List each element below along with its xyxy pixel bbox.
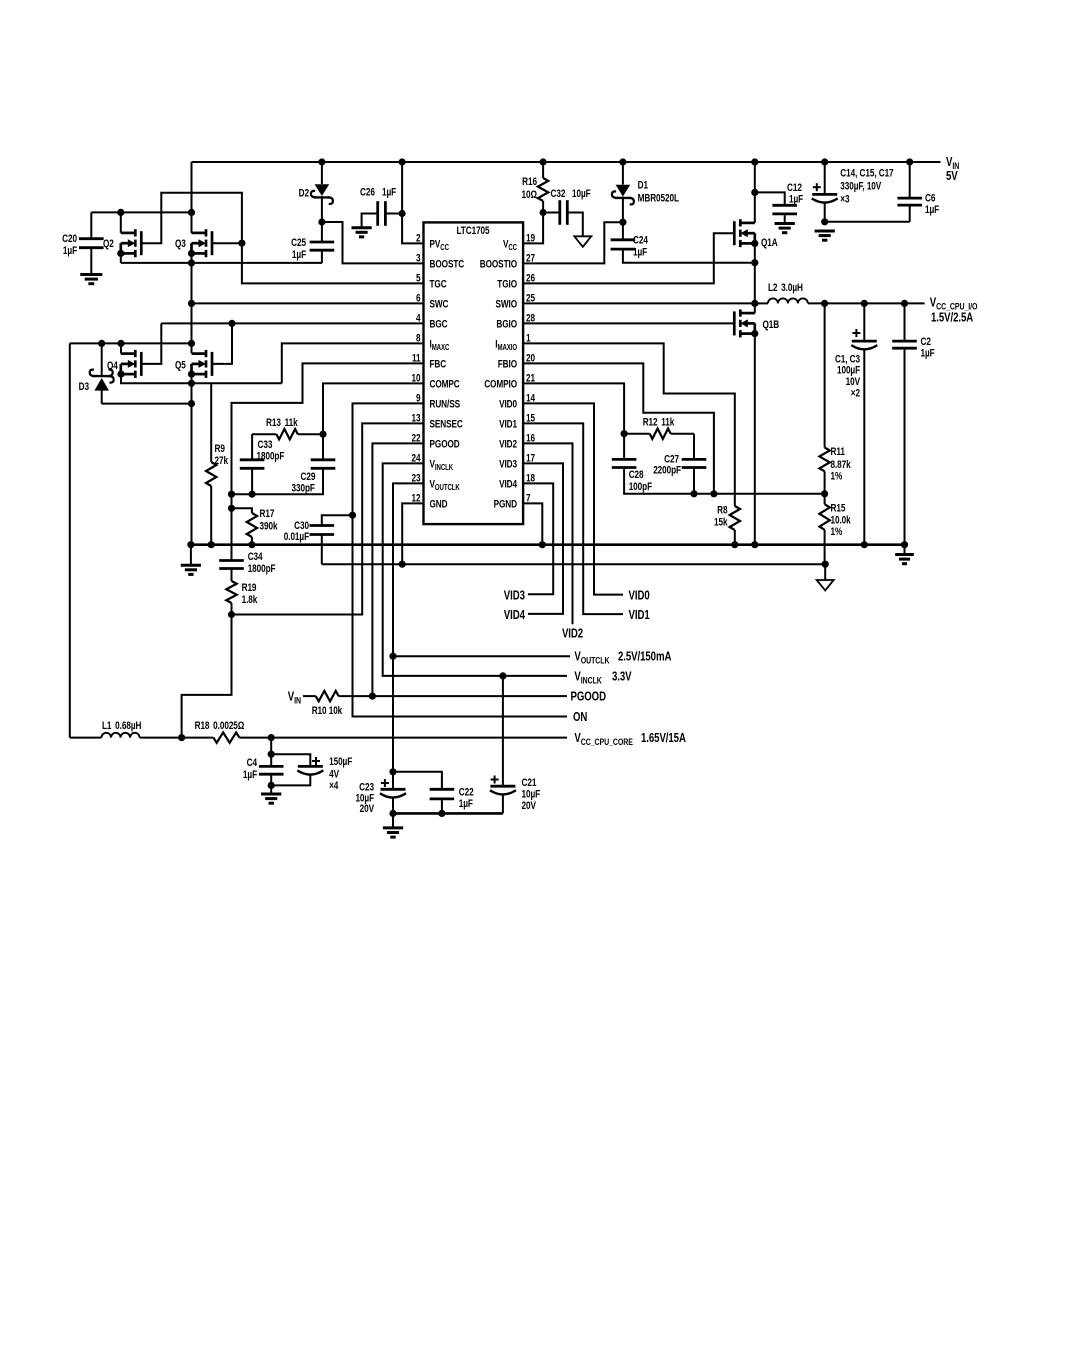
svg-text:C34: C34 bbox=[248, 551, 263, 563]
node C20/Q2 junction bbox=[117, 209, 124, 216]
resistor R8 15k bbox=[730, 506, 740, 530]
svg-text:×4: ×4 bbox=[329, 780, 339, 792]
wire Q3 gate lead bbox=[212, 242, 242, 244]
svg-text:150µF: 150µF bbox=[329, 756, 352, 768]
wire C4 drop bbox=[270, 738, 272, 767]
svg-text:C4: C4 bbox=[247, 757, 258, 769]
node Q1B rail bbox=[751, 541, 758, 548]
node sense tap bbox=[178, 734, 185, 741]
signal ground triangle under C32 bbox=[574, 236, 591, 247]
svg-text:1µF: 1µF bbox=[292, 249, 306, 261]
resistor R13 11k bbox=[252, 433, 276, 435]
wire VIN rail bbox=[192, 161, 941, 163]
svg-text:R10 10k: R10 10k bbox=[312, 705, 343, 717]
wire BGC gate net (Q4 riser) bbox=[141, 323, 161, 364]
node PGOOD junction bbox=[369, 693, 376, 700]
node boost C node bbox=[318, 218, 325, 225]
svg-text:0.01µF: 0.01µF bbox=[284, 531, 309, 543]
svg-text:R16: R16 bbox=[522, 176, 537, 188]
node C23 bottom bbox=[389, 810, 396, 817]
node D3 anode junction bbox=[188, 400, 195, 407]
resistor R12 11k bbox=[624, 433, 650, 435]
node Q5 gate junction bbox=[228, 320, 235, 327]
wire GND pin riser bbox=[402, 503, 423, 564]
svg-text:VID3: VID3 bbox=[499, 458, 517, 470]
svg-text:L2 3.0µH: L2 3.0µH bbox=[768, 282, 803, 294]
wire COMPC riser bbox=[323, 383, 424, 434]
diode D3 bbox=[101, 343, 103, 376]
svg-text:R11: R11 bbox=[831, 446, 846, 458]
resistor R9 27k bbox=[210, 383, 212, 462]
node sources/IMAXC junction bbox=[188, 380, 195, 387]
node Q1A source tie bbox=[751, 240, 758, 247]
svg-text:SWIO: SWIO bbox=[495, 298, 517, 310]
diode D1 MBR0520L bbox=[622, 162, 624, 185]
svg-text:1800pF: 1800pF bbox=[248, 563, 276, 575]
svg-text:BGC: BGC bbox=[430, 318, 448, 330]
capacitor C21 10uF bbox=[502, 676, 504, 786]
capacitor C22 1uF bbox=[393, 772, 442, 790]
resistor R11 8.87k bbox=[824, 303, 826, 447]
capacitor C14 C15 C17 330uF bbox=[824, 162, 826, 194]
node SWIO bus bbox=[751, 300, 758, 307]
svg-text:330pF: 330pF bbox=[292, 483, 316, 495]
wire left feed to L1 bbox=[69, 343, 71, 737]
node FBC/C33 line A bbox=[228, 491, 235, 498]
svg-text:330µF, 10V: 330µF, 10V bbox=[840, 180, 881, 192]
node Q1B source tie bbox=[751, 330, 758, 337]
svg-text:FBC: FBC bbox=[430, 358, 447, 370]
svg-text:8: 8 bbox=[416, 332, 421, 344]
resistor R18 0.0025ohm bbox=[213, 732, 239, 742]
wire switch node A (sources to C25 bottom) bbox=[121, 262, 322, 264]
inductor L2 3uH bbox=[755, 302, 768, 304]
wire VID3 (pin 17) bbox=[523, 463, 563, 614]
svg-text:1µF: 1µF bbox=[633, 246, 647, 258]
svg-text:1µF: 1µF bbox=[789, 193, 803, 205]
wire VID0 bbox=[523, 403, 623, 594]
svg-text:10Ω: 10Ω bbox=[522, 189, 538, 201]
wire VID1 bbox=[523, 423, 623, 614]
svg-text:VID0: VID0 bbox=[629, 589, 650, 603]
svg-text:R15: R15 bbox=[831, 502, 846, 514]
svg-text:390k: 390k bbox=[260, 520, 279, 532]
svg-text:VID3: VID3 bbox=[504, 589, 525, 603]
node R11 tap bbox=[821, 300, 828, 307]
transistor Q2 bbox=[121, 232, 136, 235]
node Q5 source tie bbox=[188, 371, 195, 378]
transistor Q1B bbox=[740, 312, 755, 315]
wire C14 bottom to C6 bbox=[825, 221, 910, 223]
svg-text:VID1: VID1 bbox=[499, 418, 518, 430]
wire TGC gate net: Q2 gate riser bbox=[141, 193, 423, 284]
wire BGIO to Q1B gate bbox=[523, 322, 734, 324]
wire SWIO to bus bbox=[523, 302, 755, 304]
wire VID4 (pin 18) bbox=[523, 483, 553, 594]
wire cap ground bar bbox=[393, 812, 503, 815]
svg-text:BOOSTC: BOOSTC bbox=[430, 258, 465, 270]
svg-text:23: 23 bbox=[412, 472, 421, 484]
wire SWC to pin 6 bbox=[192, 302, 424, 304]
svg-text:VID2: VID2 bbox=[499, 438, 517, 450]
node Q1A rail bbox=[751, 158, 758, 165]
svg-text:×2: ×2 bbox=[851, 387, 860, 399]
svg-text:1µF: 1µF bbox=[459, 798, 473, 810]
capacitor C23 10uF bbox=[381, 788, 406, 791]
svg-text:Q1A: Q1A bbox=[761, 237, 778, 249]
svg-text:1µF: 1µF bbox=[382, 186, 396, 198]
node C30 tap bbox=[349, 512, 356, 519]
svg-text:11: 11 bbox=[412, 352, 421, 364]
node COMPIO node bbox=[621, 430, 628, 437]
wire ground bus below Q5 bbox=[191, 374, 193, 545]
capacitor C6 1uF bbox=[909, 162, 911, 198]
resistor R16 10ohm bbox=[542, 162, 544, 178]
wire VOUTCLK cap riser bbox=[392, 772, 394, 790]
node PGND rail bbox=[539, 541, 546, 548]
wire IMAXIO to R8 bbox=[523, 343, 735, 506]
svg-text:PGOOD: PGOOD bbox=[430, 438, 460, 450]
wire Q4 drain lead bbox=[120, 343, 122, 353]
node C14 rail bbox=[821, 158, 828, 165]
svg-text:R19: R19 bbox=[242, 582, 257, 594]
wire RUN/SS to ON bbox=[353, 403, 568, 716]
node D1/C24 boost IO bbox=[619, 219, 626, 226]
svg-text:22: 22 bbox=[412, 432, 421, 444]
svg-text:9: 9 bbox=[416, 392, 420, 404]
wire Q1A bus to rail bbox=[754, 162, 756, 223]
svg-text:COMPC: COMPC bbox=[430, 378, 460, 390]
node Q3 source tie bbox=[188, 250, 195, 257]
svg-text:BOOSTIO: BOOSTIO bbox=[480, 258, 518, 270]
capacitor C32 10uF bbox=[543, 212, 560, 214]
ground under C20 bbox=[80, 273, 102, 276]
wire signal ground line bbox=[322, 563, 825, 565]
node C1C3 rail bbox=[861, 541, 868, 548]
ground right rail bbox=[904, 545, 906, 555]
svg-text:Q3: Q3 bbox=[175, 238, 186, 250]
signal ground triangle bbox=[824, 564, 826, 580]
svg-text:R13 11k: R13 11k bbox=[266, 417, 298, 429]
node Q5 drain bbox=[188, 340, 195, 347]
node C6 rail bbox=[906, 158, 913, 165]
svg-text:VID2: VID2 bbox=[562, 627, 583, 641]
svg-text:3.3V: 3.3V bbox=[612, 670, 632, 684]
svg-text:2200pF: 2200pF bbox=[653, 464, 681, 476]
wire FBIO riser bbox=[523, 363, 714, 493]
wire VID2 bbox=[523, 443, 572, 624]
wire power ground rail bbox=[191, 543, 905, 546]
node R9 bottom rail bbox=[208, 541, 215, 548]
svg-text:12: 12 bbox=[412, 492, 421, 504]
ground under C26 bbox=[351, 226, 371, 229]
node R15 signal ground bbox=[822, 561, 829, 568]
svg-text:Q1B: Q1B bbox=[763, 319, 780, 331]
node GND to signal ground bbox=[399, 561, 406, 568]
node C12 tap bbox=[751, 189, 758, 196]
resistor R15 10k bbox=[824, 494, 826, 504]
wire PGOOD pin riser bbox=[372, 443, 423, 696]
svg-text:C26: C26 bbox=[360, 186, 375, 198]
svg-text:10: 10 bbox=[412, 372, 421, 384]
node C2 tap bbox=[901, 300, 908, 307]
svg-text:MBR0520L: MBR0520L bbox=[638, 192, 680, 204]
svg-text:PGOOD: PGOOD bbox=[571, 690, 606, 704]
svg-text:C29: C29 bbox=[301, 471, 316, 483]
svg-text:R17: R17 bbox=[260, 508, 275, 520]
capacitor C2 1uF bbox=[904, 303, 906, 341]
svg-text:L1 0.68µH: L1 0.68µH bbox=[102, 720, 141, 732]
capacitor C29 330pF bbox=[322, 434, 324, 460]
capacitor C26 bbox=[362, 214, 378, 228]
node C4 tap bbox=[268, 734, 275, 741]
wire rail left drop / Q3 drain bus bbox=[191, 162, 193, 233]
node switch/bus junction bbox=[188, 259, 195, 266]
node C26/PVCC riser bbox=[399, 210, 406, 217]
node COMPC node bbox=[319, 431, 326, 438]
svg-text:LTC1705: LTC1705 bbox=[456, 225, 490, 237]
svg-text:1µF: 1µF bbox=[921, 347, 935, 359]
svg-text:2.5V/150mA: 2.5V/150mA bbox=[618, 650, 672, 664]
wire C20 top bbox=[91, 211, 191, 213]
wire Q1B source to rail bbox=[754, 334, 756, 545]
node FBIO to FB line bbox=[710, 490, 717, 497]
svg-text:Q2: Q2 bbox=[103, 238, 114, 250]
wire switch drain wire bbox=[70, 342, 192, 344]
svg-text:C20: C20 bbox=[62, 233, 77, 245]
node C21 tap bbox=[499, 672, 506, 679]
capacitor C30 0.01uF bbox=[322, 515, 353, 525]
node rail left end bbox=[187, 541, 194, 548]
svg-text:15k: 15k bbox=[714, 516, 728, 528]
svg-text:1.65V/15A: 1.65V/15A bbox=[641, 732, 686, 746]
node D1 rail bbox=[619, 158, 626, 165]
wire Q2 source to switch wire bbox=[120, 253, 122, 263]
svg-text:6: 6 bbox=[416, 292, 420, 304]
wire VOUTCLK pin riser bbox=[393, 483, 424, 771]
svg-text:ON: ON bbox=[573, 711, 587, 725]
wire SENSEC to sense node bbox=[232, 423, 424, 614]
svg-text:BGIO: BGIO bbox=[496, 318, 517, 330]
svg-text:C32: C32 bbox=[551, 188, 566, 200]
transistor Q5 bbox=[192, 352, 207, 355]
svg-text:SENSEC: SENSEC bbox=[430, 418, 463, 430]
IC U1 LTC1705 bbox=[424, 222, 524, 524]
node C4 bottom bbox=[268, 782, 275, 789]
svg-text:VID4: VID4 bbox=[504, 609, 526, 623]
ground under C4 bbox=[261, 793, 281, 796]
ground left rail bbox=[190, 545, 192, 566]
svg-text:20V: 20V bbox=[522, 800, 537, 812]
capacitor C12 1uF bbox=[755, 192, 785, 205]
transistor Q3 bbox=[192, 232, 207, 235]
node D3 cathode bbox=[98, 340, 105, 347]
node C33 bottom bbox=[249, 491, 256, 498]
node rail right end bbox=[901, 541, 908, 548]
svg-text:4: 4 bbox=[416, 312, 421, 324]
svg-text:1.5V/2.5A: 1.5V/2.5A bbox=[931, 311, 974, 325]
svg-text:SWC: SWC bbox=[430, 298, 449, 310]
svg-text:10µF: 10µF bbox=[572, 188, 591, 200]
svg-text:VID4: VID4 bbox=[499, 478, 518, 490]
node Q2 source tie bbox=[117, 250, 124, 257]
capacitor C27 2200pF bbox=[693, 434, 695, 460]
svg-text:2: 2 bbox=[416, 232, 420, 244]
wire BOOSTIO jog bbox=[523, 222, 623, 263]
svg-text:24: 24 bbox=[412, 452, 422, 464]
svg-text:3: 3 bbox=[416, 252, 420, 264]
wire Q1A source bus down bbox=[754, 233, 756, 313]
wire Q5 gate lead bbox=[212, 323, 232, 364]
capacitor C24 1uF bbox=[622, 222, 624, 240]
capacitor C28 100pF bbox=[623, 434, 625, 460]
node D2 rail bbox=[318, 158, 325, 165]
wire sense loop to core line bbox=[182, 615, 232, 738]
node VOUTCLK line tap bbox=[389, 653, 396, 660]
svg-text:1µF: 1µF bbox=[243, 769, 257, 781]
svg-text:C28: C28 bbox=[629, 469, 644, 481]
wire PGND pin bbox=[523, 503, 542, 544]
svg-text:D1: D1 bbox=[638, 179, 649, 191]
node R17 bottom rail bbox=[248, 541, 255, 548]
node Q4 source tie bbox=[117, 371, 124, 378]
wire IO output rail bbox=[808, 302, 925, 304]
node Q4 drain bbox=[117, 340, 124, 347]
wire IMAXC riser bbox=[282, 343, 424, 383]
svg-text:100pF: 100pF bbox=[629, 481, 653, 493]
node C24 to SW bus bbox=[751, 259, 758, 266]
wire COMPIO riser bbox=[523, 383, 624, 433]
svg-text:D2: D2 bbox=[299, 188, 309, 200]
transistor Q4 bbox=[121, 352, 136, 355]
ground under C14 bbox=[815, 230, 835, 233]
node C27 bottom bbox=[690, 490, 697, 497]
svg-text:R18 0.0025Ω: R18 0.0025Ω bbox=[195, 720, 245, 732]
svg-text:PGND: PGND bbox=[494, 498, 518, 510]
diode D2 MBR0520L bbox=[321, 162, 323, 184]
capacitor C1 C3 100uF bbox=[863, 303, 865, 341]
node PVCC rail bbox=[399, 158, 406, 165]
svg-text:×3: ×3 bbox=[840, 193, 849, 205]
wire Q4 source drop bbox=[121, 374, 282, 383]
svg-text:FBIO: FBIO bbox=[498, 358, 518, 370]
svg-text:R12 11k: R12 11k bbox=[643, 416, 675, 428]
node FB divider junction bbox=[821, 490, 828, 497]
node C1C3 tap bbox=[861, 300, 868, 307]
svg-text:RUN/SS: RUN/SS bbox=[430, 398, 461, 410]
svg-text:1%: 1% bbox=[831, 470, 843, 482]
svg-text:R9: R9 bbox=[215, 443, 225, 455]
wire VINCLK pin riser bbox=[383, 463, 567, 676]
capacitor C33 1800pF bbox=[251, 434, 253, 460]
svg-text:C25: C25 bbox=[291, 237, 306, 249]
svg-text:COMPIO: COMPIO bbox=[484, 378, 517, 390]
svg-text:GND: GND bbox=[430, 498, 448, 510]
node R19 bottom / sense bbox=[228, 611, 235, 618]
svg-text:Q5: Q5 bbox=[175, 359, 186, 371]
wire FBC net bbox=[232, 363, 424, 560]
svg-text:1%: 1% bbox=[831, 526, 843, 538]
inductor L1 0.68uH bbox=[70, 737, 102, 739]
wire switch bus down (Q3 source to Q5 drain) bbox=[191, 253, 193, 353]
svg-text:27k: 27k bbox=[215, 455, 229, 467]
wire TGIO to Q1A gate bbox=[523, 233, 734, 283]
svg-text:VID1: VID1 bbox=[629, 609, 651, 623]
capacitor C20 bbox=[90, 212, 92, 238]
svg-text:1µF: 1µF bbox=[63, 245, 77, 257]
svg-text:1µF: 1µF bbox=[925, 204, 939, 216]
svg-text:VID0: VID0 bbox=[499, 398, 517, 410]
wire PVCC riser to rail bbox=[402, 162, 423, 243]
svg-text:C14, C15, C17: C14, C15, C17 bbox=[840, 168, 893, 180]
node R16 rail bbox=[540, 158, 547, 165]
resistor R17 390k bbox=[232, 508, 252, 513]
svg-text:13: 13 bbox=[412, 412, 421, 424]
wire VCC_CPU_CORE line bbox=[239, 737, 567, 739]
node SWC tap bbox=[188, 300, 195, 307]
svg-text:C24: C24 bbox=[633, 234, 648, 246]
svg-text:5: 5 bbox=[416, 272, 421, 284]
svg-text:D3: D3 bbox=[79, 381, 89, 393]
wire D3 anode to ground bus bbox=[102, 403, 192, 405]
wire VCC pin 19 bbox=[523, 213, 543, 244]
resistor R19 1.8k bbox=[231, 569, 233, 582]
node C23 top bbox=[389, 768, 396, 775]
svg-text:5V: 5V bbox=[946, 170, 958, 184]
svg-text:20V: 20V bbox=[360, 803, 375, 815]
capacitor 150uF x4 bbox=[271, 754, 310, 766]
node Q3 gate junction bbox=[238, 240, 245, 247]
svg-text:1800pF: 1800pF bbox=[257, 451, 285, 463]
transistor Q1A bbox=[740, 222, 755, 225]
ground under C12 bbox=[775, 222, 795, 225]
capacitor C34 1800pF bbox=[219, 559, 244, 562]
ground under C23 bbox=[392, 813, 394, 828]
node R16/C32/VCC bbox=[540, 209, 547, 216]
wire Q2 drain lead bbox=[120, 212, 122, 233]
node C4/150uF top bbox=[268, 751, 275, 758]
node C14 bottom bbox=[821, 218, 828, 225]
capacitor C25 bbox=[321, 222, 323, 242]
wire BOOSTC jog from boost node bbox=[322, 222, 424, 263]
node R17 jog bbox=[228, 505, 235, 512]
svg-text:TGC: TGC bbox=[430, 278, 447, 290]
svg-text:R8: R8 bbox=[717, 504, 728, 516]
wire VOUTCLK line bbox=[393, 655, 570, 657]
svg-text:TGIO: TGIO bbox=[497, 278, 517, 290]
capacitor C4 1uF bbox=[259, 765, 284, 768]
svg-text:C33: C33 bbox=[258, 439, 273, 451]
node C22 bottom bbox=[438, 810, 445, 817]
node R8 rail bbox=[731, 541, 738, 548]
svg-text:1.8k: 1.8k bbox=[242, 594, 258, 606]
node Q3 drain junction bbox=[188, 209, 195, 216]
